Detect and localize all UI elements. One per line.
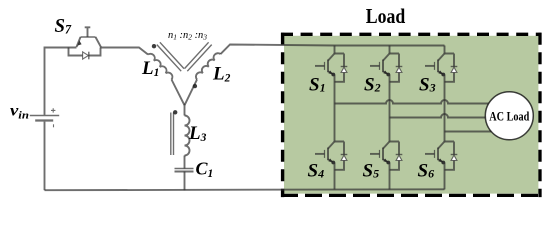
wire: leg 3 middle: [444, 75, 446, 142]
transistor S2: [370, 54, 390, 77]
AC load machine: [485, 92, 533, 140]
core of L1: [157, 42, 184, 71]
svg-text:AC Load: AC Load: [489, 110, 529, 124]
diode D1 (antiparallel with S1): [335, 54, 348, 82]
diode D5 (antiparallel with S5): [390, 142, 403, 170]
wire: leg 1 upper stub: [334, 46, 336, 54]
diode D7 (antiparallel with S7): [69, 48, 101, 60]
wire: leg 3 upper stub: [444, 46, 446, 54]
wire: leg 1 lower stub: [334, 163, 336, 190]
svg-text:L1: L1: [141, 58, 159, 79]
core of L2: [185, 42, 212, 71]
wire: L3 to C1: [184, 156, 186, 169]
svg-text:C1: C1: [196, 159, 214, 180]
load region dashed border bottom: [281, 194, 542, 197]
wire: leg 3 lower stub: [444, 163, 446, 190]
load region dashed border top: [281, 33, 542, 36]
wire: phase C output: [445, 131, 492, 133]
svg-text:vin: vin: [10, 102, 29, 121]
wire: leg 2 upper stub: [389, 46, 391, 54]
wire: L2 to inverter top rail: [221, 45, 445, 55]
load region box: [284, 36, 538, 194]
load region dashed border left: [281, 33, 284, 197]
wire: leg 2 middle: [389, 75, 391, 142]
transistor S1: [315, 54, 335, 77]
svg-text:L2: L2: [212, 64, 231, 85]
wire: battery negative to bottom rail: [44, 122, 46, 191]
load region dashed border right: [538, 33, 541, 197]
transistor S3: [425, 54, 445, 77]
diode D2 (antiparallel with S2): [390, 54, 403, 82]
wire: leg 2 lower stub: [389, 163, 391, 190]
svg-text:Load: Load: [366, 4, 406, 28]
wire: phase A output (with crossover hops): [335, 100, 489, 103]
wire: S7 to L1: [101, 48, 149, 55]
inductor L3 (winding n3): [185, 116, 190, 156]
diode D4 (antiparallel with S4): [335, 142, 348, 170]
svg-text:n1 :n2 :n3: n1 :n2 :n3: [168, 30, 207, 42]
battery Vin: [30, 108, 59, 127]
transistor S4: [315, 142, 335, 165]
wire: star point to L3: [184, 105, 186, 115]
wire: bottom rail: [45, 188, 445, 191]
diode D3 (antiparallel with S3): [445, 54, 458, 82]
core of L3: [171, 113, 174, 156]
diode D6 (antiparallel with S6): [445, 142, 458, 170]
wire: battery positive to S7: [45, 48, 77, 115]
wire: L1 to star point: [172, 80, 185, 106]
wire: C1 to bottom rail: [184, 172, 186, 191]
capacitor C1: [175, 169, 194, 172]
transistor S7: [77, 27, 102, 47]
svg-text:L3: L3: [188, 123, 207, 144]
transistor S5: [370, 142, 390, 165]
wire: leg 1 middle: [334, 75, 336, 142]
polarity dot L3: [173, 110, 177, 114]
inductor L2 (winding n2): [196, 53, 221, 79]
wire: phase B output (with crossover hop): [390, 114, 486, 117]
wire: star point to L2: [185, 80, 198, 106]
inductor L1 (winding n1): [148, 54, 172, 80]
polarity dot L2: [193, 84, 197, 88]
polarity dot L1: [152, 44, 156, 48]
svg-text:S7: S7: [55, 16, 72, 37]
transistor S6: [425, 142, 445, 165]
